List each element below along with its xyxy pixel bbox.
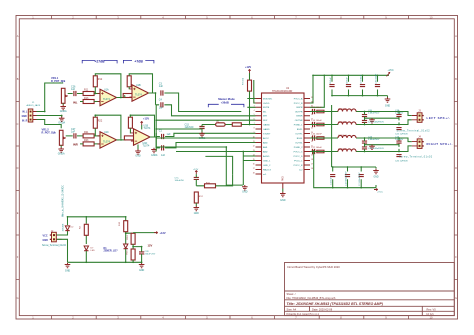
svg-text:R15: R15	[127, 250, 129, 255]
capacitor C10	[375, 85, 380, 87]
feedback resistor R22	[93, 117, 97, 128]
wire U1B out junction	[149, 93, 156, 105]
svg-text:PVCC_R: PVCC_R	[294, 165, 303, 167]
svg-text:Rev: V0: Rev: V0	[427, 307, 437, 311]
wire gnd drop left of IC	[226, 147, 255, 185]
wire input L to pot	[37, 83, 64, 112]
svg-text:KiCad E.D.A. kicad (5.1.x)-1: KiCad E.D.A. kicad (5.1.x)-1	[287, 312, 320, 316]
stage2 ch2 input resistor	[124, 136, 135, 140]
svg-text:OUTPR: OUTPR	[295, 111, 303, 113]
capacitor C18 row1	[396, 115, 401, 117]
capacitor C20 row1	[362, 115, 367, 117]
IC pad ground	[282, 189, 284, 192]
resistor R13b	[125, 217, 127, 244]
wire R11a to riser	[216, 174, 233, 186]
svg-text:J4: J4	[418, 137, 421, 139]
svg-text:8: 8	[254, 127, 255, 129]
svg-text:220uF 25V: 220uF 25V	[145, 253, 156, 255]
svg-text:+12V: +12V	[160, 231, 166, 235]
svg-text:+VCC: +VCC	[388, 70, 395, 72]
wire R14 bottom junction	[133, 244, 142, 249]
svg-text:PVCC_D: PVCC_D	[294, 156, 303, 158]
gain bracket +27dB	[82, 60, 117, 63]
svg-text:D: D	[455, 166, 457, 170]
svg-text:GAIN0: GAIN0	[263, 123, 270, 126]
svg-text:A: A	[455, 34, 457, 38]
svg-text:2: 2	[254, 101, 255, 103]
capacitor C24 row4	[362, 147, 367, 149]
svg-text:+12V: +12V	[143, 117, 149, 121]
svg-text:AM2: AM2	[263, 150, 268, 153]
svg-text:Screw_Terminal_01x02: Screw_Terminal_01x02	[397, 130, 431, 133]
ground C2 left	[156, 147, 160, 149]
svg-text:PGND_2: PGND_2	[294, 147, 304, 149]
feedback wire stage2	[129, 74, 152, 93]
svg-text:+7dB: +7dB	[134, 59, 143, 63]
svg-text:GNDA: GNDA	[60, 110, 67, 113]
svg-text:Screw_Terminal_01x02: Screw_Terminal_01x02	[399, 155, 433, 158]
feedback resistor R14	[127, 76, 131, 87]
capacitor C12 bulk	[345, 175, 350, 177]
svg-text:Size: A4: Size: A4	[287, 307, 297, 311]
ground row3-4	[369, 145, 375, 150]
svg-text:IN_L: IN_L	[22, 112, 28, 114]
svg-text:GND: GND	[373, 177, 378, 179]
svg-text:1uF: 1uF	[159, 85, 164, 88]
svg-text:C: C	[455, 122, 457, 126]
svg-text:GND: GND	[385, 105, 391, 108]
wire row2 out	[310, 120, 412, 125]
wire junction dots	[44, 74, 400, 263]
svg-text:12V: 12V	[148, 243, 153, 247]
IC U2 left pin numbers	[253, 97, 255, 174]
potentiometer VR1.1	[61, 88, 67, 103]
gain bracket +7dB	[123, 60, 153, 63]
IC U2 right pin numbers	[311, 97, 313, 170]
svg-text:6: 6	[254, 119, 255, 121]
svg-text:C17 100nF: C17 100nF	[311, 147, 322, 149]
svg-text:GND: GND	[22, 116, 27, 118]
svg-text:1uF: 1uF	[167, 133, 172, 136]
capacitor C25 row4	[396, 155, 401, 157]
svg-text:OUTPL: OUTPL	[295, 133, 303, 135]
title block box	[285, 263, 455, 316]
svg-text:E: E	[455, 211, 457, 215]
feedback wire stage2 ch2	[130, 115, 154, 137]
svg-text:1uF: 1uF	[71, 130, 76, 133]
capacitor C19 row3	[396, 141, 401, 143]
svg-text:Master Mode: Master Mode	[218, 97, 235, 101]
svg-text:TL074: TL074	[135, 94, 142, 97]
capacitor C28 electrolytic	[139, 252, 144, 254]
svg-text:+12V: +12V	[193, 169, 199, 171]
svg-text:OUTNR: OUTNR	[295, 120, 303, 122]
svg-text:J1: J1	[32, 102, 35, 104]
svg-text:13: 13	[253, 150, 255, 152]
svg-text:11: 11	[253, 141, 255, 143]
svg-text:LED: LED	[91, 250, 96, 252]
capacitor C8	[346, 85, 351, 87]
op-amp U1A	[97, 89, 119, 105]
power label +12V	[154, 231, 158, 233]
feedback wire stage1	[95, 74, 121, 98]
wire GND in down	[57, 239, 142, 262]
ground R12a	[194, 206, 200, 211]
svg-text:GND1: GND1	[151, 154, 158, 157]
svg-text:C12 680uF/35V: C12 680uF/35V	[345, 171, 347, 186]
ground bulk bank	[373, 169, 379, 174]
svg-text:INR: INR	[73, 143, 78, 147]
svg-text:INR: INR	[263, 116, 267, 118]
svg-text:Sheet: /: Sheet: /	[287, 292, 296, 296]
svg-text:G: G	[455, 296, 457, 300]
svg-text:1uF/50V: 1uF/50V	[395, 113, 404, 115]
svg-text:AVCC: AVCC	[263, 137, 269, 140]
svg-text:C1: C1	[159, 130, 163, 133]
wire to pot VR1.2	[37, 120, 62, 129]
svg-text:3: 3	[254, 106, 255, 108]
wire pot wiper to C26	[68, 93, 84, 95]
svg-text:GND: GND	[43, 239, 49, 242]
svg-text:25: 25	[311, 127, 313, 129]
svg-text:AM1: AM1	[263, 146, 268, 149]
svg-text:LEFT SPK+/-: LEFT SPK+/-	[427, 116, 451, 120]
power flag VCC bulk	[374, 188, 378, 190]
svg-text:9: 9	[254, 132, 255, 134]
ground row1-2	[369, 118, 375, 123]
svg-text:18: 18	[311, 159, 313, 161]
svg-text:MODSEL: MODSEL	[263, 98, 273, 100]
svg-text:BSPL: BSPL	[297, 129, 303, 131]
svg-text:GND: GND	[280, 199, 286, 202]
IC U2 left pin names	[263, 98, 273, 175]
wire input GND	[37, 116, 62, 118]
svg-text:16: 16	[311, 168, 313, 170]
svg-text:18: 18	[253, 172, 255, 174]
power flag +VCC	[387, 73, 390, 77]
svg-text:TL074: TL074	[103, 98, 110, 101]
svg-text:C6 1uF: C6 1uF	[330, 76, 332, 84]
capacitor C22 row2	[396, 128, 401, 130]
component R8	[232, 123, 241, 126]
svg-text:B: B	[455, 77, 457, 81]
svg-text:0.68uF/50V: 0.68uF/50V	[368, 139, 380, 141]
svg-text:BSNR: BSNR	[296, 116, 302, 118]
svg-text:File: TPA3116D2_XH-M543_BTL-Am: File: TPA3116D2_XH-M543_BTL-Amp.sch	[287, 296, 336, 300]
capacitor C23 row3	[362, 141, 367, 143]
capacitor C6	[329, 85, 334, 87]
feedback wire stage1 ch2	[95, 115, 121, 139]
svg-text:16: 16	[253, 163, 255, 165]
svg-text:Screw_Terminal_01x02: Screw_Terminal_01x02	[42, 244, 67, 247]
svg-text:+36dB: +36dB	[221, 101, 229, 105]
svg-text:C8 1uF: C8 1uF	[346, 76, 348, 84]
svg-text:PGND_1: PGND_1	[294, 124, 304, 126]
ground J2	[65, 263, 71, 268]
svg-text:C22 1uF/50V: C22 1uF/50V	[395, 134, 408, 136]
feedback resistor R24	[128, 117, 132, 128]
svg-text:AGND: AGND	[263, 155, 270, 158]
svg-text:GAIN1: GAIN1	[263, 128, 270, 131]
svg-text:Circuit Board Traced by CyberP: Circuit Board Traced by CyberPK MLD 2020	[287, 265, 340, 269]
IC U2 body	[262, 93, 305, 183]
svg-text:0.68uF/50V: 0.68uF/50V	[368, 113, 380, 115]
resistor R12a	[194, 192, 198, 203]
svg-text:GVDD: GVDD	[263, 103, 270, 105]
svg-text:GND: GND	[139, 269, 145, 272]
svg-text:R_POT_Djlk: R_POT_Djlk	[51, 80, 66, 83]
svg-text:GND: GND	[135, 155, 141, 158]
ground pot VR1.2	[60, 145, 62, 147]
svg-text:15: 15	[253, 159, 255, 161]
svg-text:B: B	[17, 77, 19, 81]
diode D2	[65, 226, 69, 231]
wire R7 down to mute row	[247, 73, 255, 125]
svg-text:C11 1uF: C11 1uF	[331, 176, 333, 185]
svg-text:R_POT_Djlk: R_POT_Djlk	[42, 131, 57, 134]
svg-text:R13: R13	[119, 221, 121, 226]
feedback resistor R12	[93, 76, 97, 87]
svg-text:Title: JSXINGHE XH-M543 (TPA31: Title: JSXINGHE XH-M543 (TPA3116D2 BTL S…	[287, 302, 384, 306]
svg-text:R2: R2	[80, 225, 82, 229]
svg-text:28: 28	[311, 114, 313, 116]
opamp U1D ground pin	[137, 145, 139, 150]
svg-text:C13 100nF: C13 100nF	[311, 107, 322, 109]
svg-text:C16 100nF: C16 100nF	[311, 133, 322, 135]
op-amp U1D	[131, 129, 153, 145]
IC U2 right pins	[304, 99, 310, 170]
svg-text:OUTNL: OUTNL	[295, 142, 303, 144]
svg-text:BSPR: BSPR	[297, 107, 303, 109]
IC U2 left pins	[256, 99, 262, 175]
svg-text:14: 14	[253, 154, 255, 156]
ground bottom rail	[139, 263, 145, 268]
svg-text:R12: R12	[98, 78, 103, 81]
svg-text:F: F	[17, 255, 19, 259]
svg-text:GND_1: GND_1	[263, 160, 271, 162]
wire PVCC rail top	[310, 75, 389, 107]
svg-text:D2: D2	[71, 227, 75, 229]
svg-text:17: 17	[311, 163, 313, 165]
svg-text:SDZ: SDZ	[263, 120, 268, 122]
svg-text:R14: R14	[127, 235, 129, 240]
svg-text:TL074: TL074	[144, 127, 151, 130]
svg-text:17: 17	[253, 168, 255, 170]
capacitor C9	[360, 85, 365, 87]
svg-text:D: D	[17, 166, 19, 170]
svg-text:STDBY: STDBY	[263, 133, 271, 135]
svg-text:E: E	[17, 211, 19, 215]
svg-text:+27dB: +27dB	[94, 59, 105, 63]
wire +12V tap	[133, 232, 157, 234]
ground cap bank	[385, 97, 391, 102]
wire row4 out	[310, 146, 412, 152]
svg-text:22: 22	[311, 141, 313, 143]
svg-text:AM0: AM0	[263, 141, 268, 144]
wire U1A out to stage2	[117, 96, 125, 98]
svg-text:PVCC_C: PVCC_C	[294, 151, 303, 153]
wire VCC in up	[57, 217, 126, 235]
svg-text:4: 4	[254, 110, 255, 112]
IC U2 right pin names	[294, 97, 304, 171]
svg-text:TL074: TL074	[143, 145, 150, 148]
svg-text:RIGHT SPK+/-: RIGHT SPK+/-	[427, 142, 453, 146]
svg-text:U1C: U1C	[104, 131, 109, 134]
potentiometer VR1.2	[59, 130, 65, 145]
svg-text:1uF/50V: 1uF/50V	[395, 139, 404, 141]
svg-text:C24 0.68uF/50V: C24 0.68uF/50V	[368, 148, 384, 150]
wire U1C out to stage2 ch2	[117, 139, 126, 141]
svg-text:12: 12	[253, 145, 255, 147]
mute row wire	[202, 124, 256, 126]
resistor R2	[85, 217, 87, 244]
svg-text:A: A	[17, 34, 19, 38]
wire AM riser	[205, 156, 232, 174]
svg-text:U1A: U1A	[104, 89, 109, 92]
svg-text:GND: GND	[65, 270, 71, 273]
svg-text:TPA3116D2DADR: TPA3116D2DADR	[272, 90, 293, 93]
svg-text:C4: C4	[159, 98, 163, 101]
svg-text:10: 10	[253, 136, 255, 138]
svg-text:J3: J3	[418, 110, 421, 112]
resistor R11a	[205, 184, 216, 188]
wire junction to R14	[126, 233, 133, 236]
svg-text:+VCC: +VCC	[377, 192, 383, 194]
op-amp U1B	[129, 85, 151, 101]
op-amp U1C	[97, 132, 119, 148]
wire C3 to IC pin jog	[164, 93, 241, 112]
diode D7 LED	[84, 246, 88, 251]
svg-text:5: 5	[254, 114, 255, 116]
svg-text:GND: GND	[242, 190, 248, 193]
ground pot VR1.1	[62, 103, 64, 105]
svg-text:100uF/50: 100uF/50	[175, 180, 185, 182]
svg-text:GND_2: GND_2	[263, 165, 271, 167]
resistor R7	[248, 80, 252, 91]
wire bulk rail	[314, 105, 376, 188]
svg-text:C14 100nF: C14 100nF	[311, 120, 322, 122]
svg-text:ZENER_LD?: ZENER_LD?	[104, 250, 119, 253]
svg-text:GND: GND	[194, 213, 199, 215]
svg-text:FAULTZ: FAULTZ	[263, 168, 272, 171]
svg-text:C21 0.68uF/50V: C21 0.68uF/50V	[368, 121, 384, 123]
wire C2 to IC pin jog	[165, 143, 255, 148]
capacitor C7 bulk	[359, 175, 364, 177]
svg-text:Id: 1/1: Id: 1/1	[427, 312, 435, 316]
svg-text:PAD: PAD	[282, 176, 285, 181]
stage2 input resistor R15a	[123, 94, 134, 98]
capacitor C21 row2	[362, 120, 367, 122]
svg-text:PVCC_B: PVCC_B	[294, 103, 303, 105]
svg-text:1uF: 1uF	[161, 154, 166, 157]
wire row3 out	[310, 138, 412, 142]
resistor R15b	[131, 249, 135, 260]
svg-text:R22: R22	[98, 120, 103, 123]
wire U1D out junction	[150, 133, 157, 148]
wire C1 to IC pin jog	[156, 133, 255, 136]
svg-text:IN_R: IN_R	[22, 120, 28, 122]
capacitor C2	[162, 145, 164, 150]
svg-text:PVCC_A: PVCC_A	[294, 97, 303, 100]
svg-text:AUDIO_JACK: AUDIO_JACK	[27, 104, 41, 107]
wire pot2 wiper to C27	[66, 135, 84, 137]
svg-text:C: C	[17, 122, 19, 126]
wire C4 to IC pin jog	[156, 105, 256, 116]
svg-text:+12V: +12V	[245, 65, 251, 69]
svg-text:GNDA: GNDA	[58, 153, 65, 156]
svg-text:MUTE: MUTE	[263, 107, 270, 109]
ground C15	[199, 132, 205, 137]
svg-text:1: 1	[254, 97, 255, 99]
wire bundle to IC	[156, 105, 255, 152]
svg-text:19: 19	[311, 154, 313, 156]
svg-text:TL074: TL074	[103, 140, 110, 143]
svg-text:1uF: 1uF	[71, 88, 76, 91]
capacitor C11 bulk	[330, 175, 335, 177]
svg-text:Wire_to_XH–M543_12–24VDC: Wire_to_XH–M543_12–24VDC	[61, 185, 64, 217]
ground input R	[59, 117, 65, 122]
svg-text:PVCC_L: PVCC_L	[294, 160, 303, 162]
ground near IC left	[242, 185, 248, 190]
svg-text:R7 10k: R7 10k	[243, 77, 245, 85]
svg-text:R12: R12	[199, 196, 204, 198]
svg-text:F: F	[455, 255, 457, 259]
svg-text:INL: INL	[73, 100, 78, 104]
resistor R14b	[131, 233, 135, 244]
svg-text:1N5408: 1N5408	[62, 223, 64, 231]
zener diode D1	[124, 244, 128, 249]
wire row1 out	[310, 112, 412, 116]
svg-text:BSNL: BSNL	[297, 138, 303, 140]
svg-text:Date: 2020-02-08: Date: 2020-02-08	[312, 307, 333, 311]
svg-text:C7 220uF/35V: C7 220uF/35V	[359, 172, 361, 186]
svg-text:U1B: U1B	[136, 84, 141, 87]
svg-text:VCC: VCC	[43, 235, 48, 238]
svg-text:C25 1uF/50V: C25 1uF/50V	[395, 161, 408, 163]
svg-text:G: G	[17, 296, 19, 300]
Master Mode bracket	[208, 104, 244, 107]
svg-text:7: 7	[254, 123, 255, 125]
